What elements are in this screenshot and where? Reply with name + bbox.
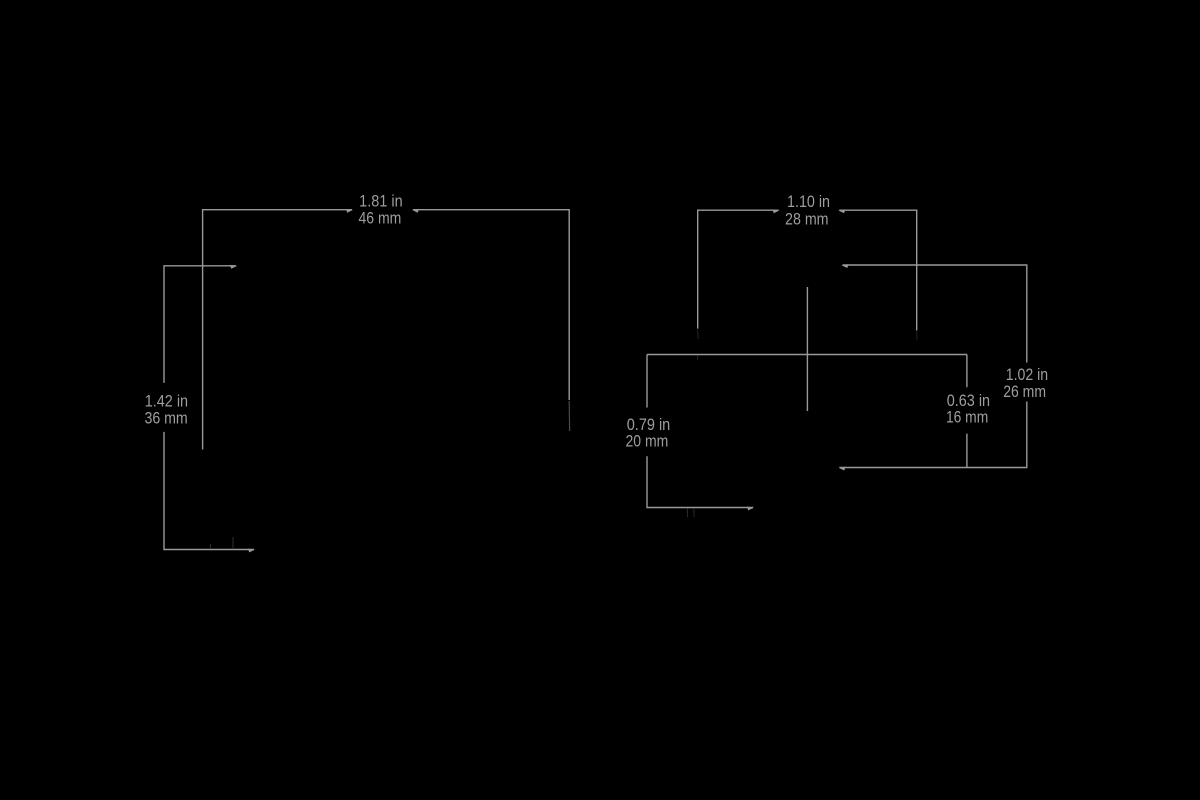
arrowhead right at 1.10in text gap left end (772, 209, 779, 213)
svg-text:1.42 in: 1.42 in (145, 393, 188, 411)
svg-text:1.02 in: 1.02 in (1006, 366, 1048, 384)
side view: height dimension bracket 1.02 in, top arm (843, 265, 1027, 363)
label 1.81 in / 46 mm (359, 192, 403, 227)
label 0.63 in / 16 mm (946, 392, 990, 427)
svg-text:26 mm: 26 mm (1003, 383, 1046, 401)
arrowhead right at 1.42in bottom arm end (248, 549, 255, 553)
faint product tick below lens top line (697, 355, 699, 359)
svg-text:0.63 in: 0.63 in (947, 392, 990, 410)
svg-text:46 mm: 46 mm (359, 210, 402, 228)
svg-text:0.79 in: 0.79 in (627, 416, 671, 434)
side view: height dimension bracket 1.02 in, bottom arm (840, 402, 1027, 468)
side view: lens height dimension 0.63 in, upper segment (966, 355, 968, 388)
svg-text:28 mm: 28 mm (785, 210, 829, 228)
svg-text:16 mm: 16 mm (946, 409, 988, 427)
svg-text:1.10 in: 1.10 in (787, 193, 830, 211)
faint product tick above front-view bottom arm (209, 544, 211, 549)
faint product ticks below depth-dim bottom arm (687, 508, 689, 517)
side view: lens height dimension 0.63 in, lower segment (966, 434, 968, 468)
side view: lens centerline (806, 287, 808, 411)
front view: width dimension bracket 1.81 in, right half (413, 210, 569, 400)
label 1.42 in / 36 mm (144, 393, 188, 428)
arrowhead left at 1.10in text gap right end (838, 209, 845, 213)
faint product ticks below depth-dim bottom arm 2 (693, 508, 695, 517)
label 1.10 in / 28 mm (785, 193, 830, 228)
side view: depth dimension 0.79 in, lower leg (647, 456, 753, 507)
side view: depth dimension 0.79 in, upper leg (646, 355, 648, 408)
svg-text:1.81 in: 1.81 in (359, 192, 403, 210)
front view: height dimension bracket 1.42 in, top half (164, 266, 236, 383)
label 1.02 in / 26 mm (1003, 366, 1048, 401)
arrowhead left at 1.02in bottom arm end (839, 467, 846, 471)
arrowhead left at 1.02in top arm start (842, 264, 849, 268)
label 0.79 in / 20 mm (626, 416, 671, 450)
arrowhead right at 1.42in top arm end (230, 265, 237, 269)
faint product edge tail below side-view left extension (697, 330, 700, 339)
side view: width dimension bracket 1.10 in, left half (698, 210, 779, 328)
front view: height dimension bracket 1.42 in, bottom half (164, 432, 254, 550)
arrowhead left at 1.81in text gap right end (412, 209, 419, 213)
front view: width dim faint extension below right leg (568, 401, 570, 431)
front view: width dimension bracket 1.81 in, left half (203, 210, 352, 450)
side view: width dimension bracket 1.10 in, right half (839, 210, 916, 330)
arrowhead right at 1.81in text gap left end (346, 209, 353, 213)
svg-text:36 mm: 36 mm (144, 410, 187, 428)
side view: lens top line (shared extension for 0.79/0.63 dims) (647, 354, 967, 356)
svg-text:20 mm: 20 mm (626, 432, 669, 450)
faint product tick above front-view bottom arm 2 (232, 537, 234, 549)
faint product edge tail below side-view right extension (916, 332, 918, 341)
arrowhead right at 0.79in bottom arm end (747, 507, 754, 511)
